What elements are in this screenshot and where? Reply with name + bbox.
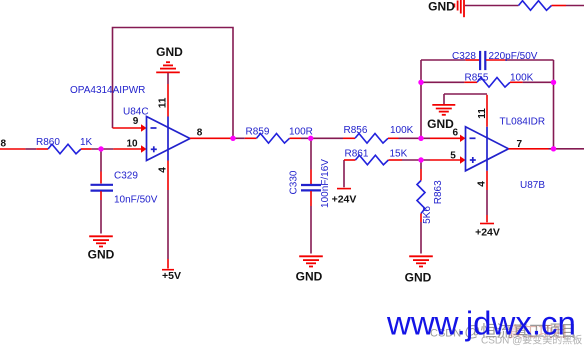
svg-text:1K: 1K (80, 137, 93, 148)
svg-text:U87B: U87B (520, 180, 545, 191)
svg-text:OPA4314AIPWR: OPA4314AIPWR (70, 85, 145, 96)
svg-text:220pF/50V: 220pF/50V (489, 51, 538, 62)
svg-text:R855: R855 (465, 73, 489, 84)
svg-text:8: 8 (1, 139, 7, 150)
svg-text:www.jdwx.cn: www.jdwx.cn (386, 305, 576, 342)
svg-text:5: 5 (450, 151, 456, 162)
svg-text:100K: 100K (390, 125, 414, 136)
svg-text:C329: C329 (114, 171, 138, 182)
svg-text:11: 11 (158, 97, 169, 108)
svg-text:GND: GND (405, 271, 432, 285)
svg-text:R860: R860 (36, 137, 60, 148)
svg-text:100R: 100R (289, 127, 313, 138)
svg-text:GND: GND (156, 45, 183, 59)
svg-text:4: 4 (477, 181, 488, 187)
svg-text:U84C: U84C (123, 107, 149, 118)
svg-text:+5V: +5V (162, 270, 181, 282)
svg-text:9: 9 (133, 116, 139, 127)
svg-text:10nF/50V: 10nF/50V (114, 194, 158, 205)
svg-text:C328: C328 (452, 51, 476, 62)
svg-text:8: 8 (197, 127, 203, 138)
svg-text:15K: 15K (390, 149, 408, 160)
svg-text:GND: GND (428, 0, 455, 14)
svg-text:GND: GND (296, 270, 323, 284)
svg-text:C330: C330 (289, 170, 300, 194)
svg-text:100K: 100K (510, 73, 534, 84)
svg-text:R859: R859 (246, 127, 270, 138)
svg-text:+24V: +24V (475, 227, 500, 239)
svg-text:6: 6 (453, 127, 459, 138)
svg-text:7: 7 (517, 139, 523, 150)
svg-text:TL084IDR: TL084IDR (500, 117, 546, 128)
svg-text:10: 10 (126, 138, 138, 149)
svg-text:+24V: +24V (332, 194, 357, 206)
svg-text:GND: GND (427, 117, 454, 131)
svg-text:R861: R861 (345, 149, 369, 160)
svg-text:R863: R863 (433, 180, 444, 204)
svg-text:5K6: 5K6 (422, 206, 433, 224)
svg-text:4: 4 (158, 167, 169, 173)
svg-text:R856: R856 (344, 125, 368, 136)
svg-text:100nF/16V: 100nF/16V (320, 159, 331, 208)
svg-text:GND: GND (88, 248, 115, 262)
svg-text:11: 11 (477, 108, 488, 119)
